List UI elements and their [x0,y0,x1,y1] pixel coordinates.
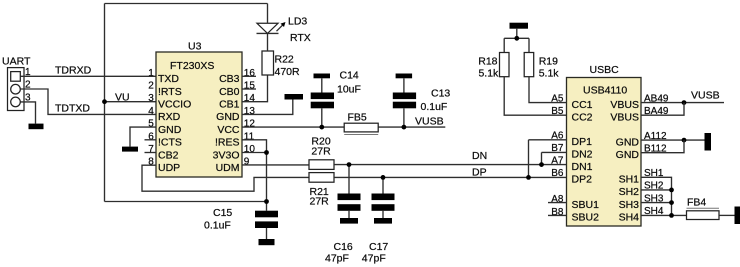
node R18/R19 top junction [514,36,519,41]
svg-text:VCC: VCC [217,124,240,136]
svg-text:0.1uF: 0.1uF [421,101,448,113]
wire U3 pin13 to ground [242,100,293,115]
wire U3 pin5 to ground [130,127,156,147]
capacitor C17 [382,177,384,193]
svg-text:USB4110: USB4110 [583,84,627,96]
svg-text:5: 5 [148,119,154,130]
wire R18 to CC2 [504,77,566,116]
svg-text:!CTS: !CTS [158,137,182,149]
svg-text:RXD: RXD [158,111,181,123]
svg-text:C17: C17 [369,241,388,253]
wire VCC line (U3 pin12 to FB5 to VUSB) [242,126,344,128]
svg-text:UDP: UDP [158,162,180,174]
svg-text:7: 7 [148,144,154,155]
svg-text:C14: C14 [340,69,359,81]
wire UART pin3 to ground [20,102,35,124]
svg-text:CB3: CB3 [219,73,240,85]
wire TDRXD (UART pin1 to U3 TXD) [20,75,156,77]
svg-text:8: 8 [148,157,154,168]
svg-text:10uF: 10uF [337,83,361,95]
wire FB4 to ground [719,214,735,216]
svg-text:DP2: DP2 [572,174,593,186]
svg-text:DN1: DN1 [572,161,593,173]
svg-text:13: 13 [244,106,256,117]
wire UDP net (U3 pin8 around to R21) [142,165,309,191]
svg-text:SH3: SH3 [619,199,640,211]
svg-text:DP1: DP1 [572,136,593,148]
svg-text:SH4: SH4 [619,212,640,224]
svg-text:11: 11 [244,131,255,142]
svg-text:TDRXD: TDRXD [55,65,92,77]
resistor R20 [309,160,334,170]
svg-text:0.1uF: 0.1uF [204,220,231,232]
svg-text:10: 10 [244,144,256,155]
IC USBC USB4110 body [567,78,642,227]
svg-text:5.1k: 5.1k [478,68,499,80]
svg-text:VUSB: VUSB [691,90,720,102]
LED arrow [277,25,284,32]
svg-text:16: 16 [244,68,256,79]
ground (U3 pin 5) [122,147,138,152]
ground (top bar above R18/R19) [510,23,529,29]
capacitor C16 [348,165,350,194]
svg-text:9: 9 [244,157,250,168]
svg-text:VBUS: VBUS [610,111,639,123]
svg-text:47pF: 47pF [362,252,386,264]
svg-text:R18: R18 [478,56,497,68]
wire VU tap to U3 VCCIO [105,101,157,103]
svg-text:GND: GND [616,149,640,161]
svg-text:C15: C15 [213,207,232,219]
capacitor C15 [255,211,278,218]
svg-text:2: 2 [148,81,154,92]
svg-text:470R: 470R [275,66,301,78]
svg-text:FB5: FB5 [348,111,367,123]
svg-text:27R: 27R [310,196,330,208]
capacitor C14 [314,74,331,79]
svg-text:VCCIO: VCCIO [158,99,191,111]
svg-text:B5: B5 [551,106,564,117]
svg-text:UDM: UDM [216,162,240,174]
svg-text:27R: 27R [311,145,331,157]
IC U3 FT230XS body [156,52,242,177]
wire top bar to R18/R19 [516,29,518,39]
wire U3 pin14 CB1 to R22 [242,75,268,102]
svg-text:CB1: CB1 [219,99,240,111]
capacitor C13 [396,74,413,79]
ground (A112/B112) [705,133,712,151]
svg-text:R19: R19 [539,56,558,68]
svg-text:DP: DP [472,166,487,178]
connector UART [2,56,31,111]
svg-text:SH2: SH2 [619,186,640,198]
svg-text:FT230XS: FT230XS [170,60,214,72]
ferrite bead FB4 [687,211,720,220]
svg-text:C13: C13 [431,87,450,99]
svg-text:C16: C16 [334,241,353,253]
svg-text:GND: GND [216,111,240,123]
svg-text:B8: B8 [551,207,564,218]
ground (U3 pin 13) [285,94,304,100]
node C15 junction [264,199,269,204]
wire DN line (R20 to USBC DN1) [334,164,567,166]
svg-text:CC2: CC2 [572,111,593,123]
resistor R18 [500,53,510,77]
ground (UART pin 3) [29,124,44,130]
node 3V3O junction [264,150,269,155]
svg-text:47pF: 47pF [325,252,349,264]
ferrite bead FB5 [344,123,378,132]
svg-text:CC1: CC1 [572,99,593,111]
svg-text:RTX: RTX [290,32,311,44]
svg-text:4: 4 [148,106,154,117]
svg-text:12: 12 [244,119,256,130]
svg-text:R22: R22 [275,54,294,66]
svg-text:DN: DN [472,150,487,162]
svg-text:SH1: SH1 [619,174,640,186]
svg-text:GND: GND [616,136,640,148]
svg-text:UART: UART [2,56,31,68]
wire R22 to LED [267,33,269,51]
wire TDTXD (UART pin2 to U3 RXD) [20,89,156,114]
svg-text:GND: GND [158,124,182,136]
node VU junction [102,99,107,104]
resistor R21 [309,173,334,183]
wire UDM / DN net (U3 pin9 to R20) [242,164,309,166]
wire U3 pin10 3V3O to VU vertical [242,152,267,154]
svg-text:A7: A7 [551,156,564,167]
svg-text:5.1k: 5.1k [539,68,560,80]
svg-text:A5: A5 [551,93,564,104]
svg-text:15: 15 [244,81,256,92]
svg-text:TDTXD: TDTXD [55,103,90,115]
resistor R19 [524,53,534,77]
wire R19 to CC1 [529,77,567,103]
svg-text:VBUS: VBUS [610,99,639,111]
svg-text:!RTS: !RTS [158,86,182,98]
svg-text:CB0: CB0 [219,86,240,98]
svg-text:VUSB: VUSB [415,115,444,127]
LED LD3 [257,32,279,34]
svg-text:B6: B6 [551,168,564,179]
wire DP line (R21 to USBC DP2) [334,176,567,178]
svg-text:14: 14 [244,93,256,104]
svg-text:SBU2: SBU2 [572,212,600,224]
svg-text:1: 1 [148,68,154,79]
svg-text:DN2: DN2 [572,149,593,161]
svg-text:SBU1: SBU1 [572,199,600,211]
svg-text:LD3: LD3 [288,16,307,28]
svg-text:FB4: FB4 [687,196,706,208]
svg-text:VU: VU [115,92,130,104]
wire U3 pin11 !RES to VU vertical [242,140,267,211]
svg-text:!RES: !RES [215,137,240,149]
svg-text:6: 6 [148,131,154,142]
svg-text:3V3O: 3V3O [213,149,240,161]
wire VU rail (top + left vertical + bottom run) [105,3,268,5]
svg-text:CB2: CB2 [158,149,179,161]
svg-text:USBC: USBC [590,64,620,76]
svg-text:U3: U3 [188,41,202,53]
svg-text:3: 3 [148,93,154,104]
svg-text:TXD: TXD [158,73,179,85]
svg-text:A8: A8 [551,194,564,205]
ground (FB4) [735,207,740,225]
resistor R22 [262,51,274,75]
